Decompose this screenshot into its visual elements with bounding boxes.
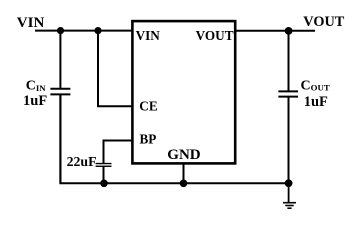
node (COUT / rail junction) — [285, 179, 293, 187]
node (VIN / CE junction) — [94, 27, 101, 34]
node VOUT (COUT junction) — [285, 27, 293, 35]
wire (COUT bottom lead) — [288, 97, 290, 184]
wire (C1 bottom lead) — [103, 166, 105, 183]
IC U1 (regulator body) — [132, 21, 235, 163]
wire (BP branch) — [104, 141, 134, 164]
wire (CE branch) — [98, 31, 133, 107]
svg-text:1uF: 1uF — [304, 94, 328, 110]
svg-text:1uF: 1uF — [23, 93, 47, 109]
svg-text:VIN: VIN — [136, 28, 161, 43]
node (VIN / CIN junction) — [57, 27, 64, 34]
wire (COUT top lead) — [288, 31, 290, 92]
node (C1 / rail junction) — [100, 180, 108, 188]
wire (CIN bottom lead) — [59, 94, 61, 183]
svg-text:CE: CE — [139, 99, 158, 114]
svg-text:VIN: VIN — [17, 15, 45, 31]
capacitor C1 22uF (bypass) — [96, 163, 112, 165]
wire (ground rail) — [60, 94, 288, 183]
ground — [283, 202, 296, 204]
svg-text:VOUT: VOUT — [196, 28, 234, 43]
svg-text:GND: GND — [167, 147, 201, 163]
capacitor COUT — [278, 90, 298, 92]
node (GND / rail junction) — [180, 180, 188, 188]
wire (ground stem) — [288, 183, 290, 202]
svg-text:BP: BP — [140, 131, 157, 146]
capacitor CIN — [50, 88, 70, 90]
svg-text:VOUT: VOUT — [303, 14, 344, 30]
wire (CIN top lead) — [59, 31, 61, 89]
wire (VOUT output rail) — [236, 30, 315, 32]
svg-text:22uF: 22uF — [67, 154, 97, 169]
wire (VIN input rail) — [35, 30, 133, 32]
wire (GND pin lead) — [183, 164, 185, 183]
